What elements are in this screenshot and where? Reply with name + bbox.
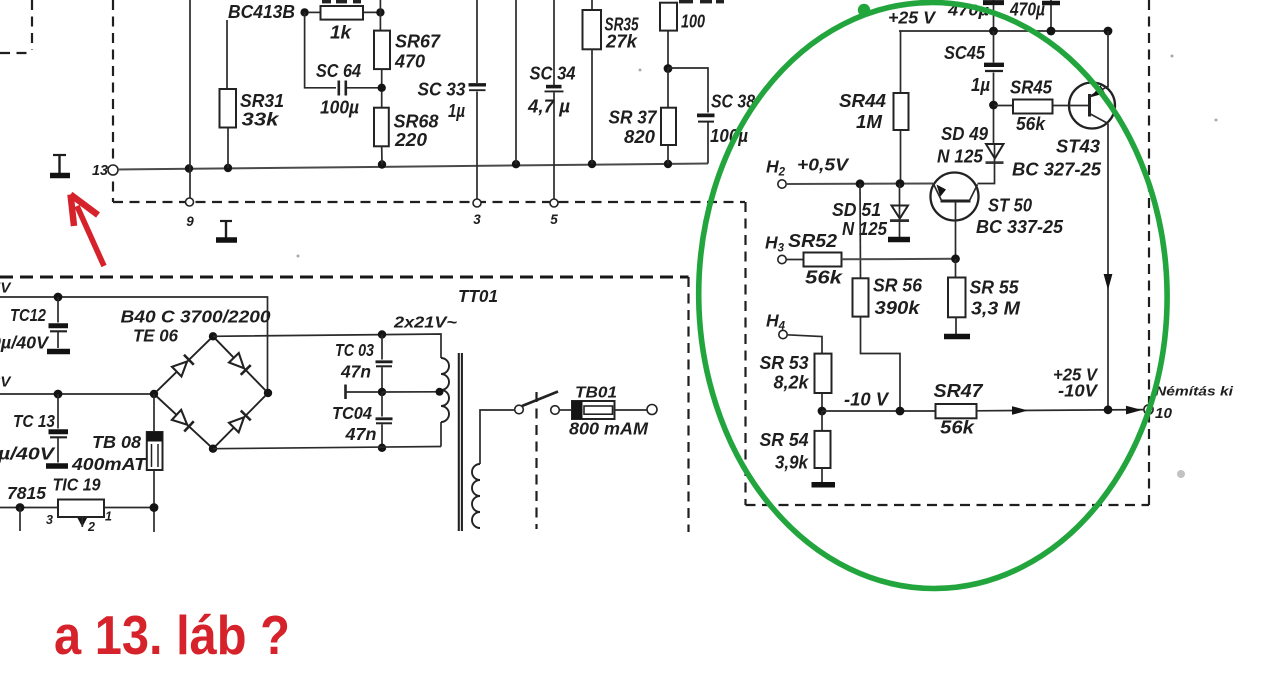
resistor SR44 1M [839,31,909,184]
svg-text:820: 820 [624,127,655,147]
svg-text:TC 13: TC 13 [13,411,55,431]
svg-text:SC 34: SC 34 [530,64,576,84]
svg-text:SC 38: SC 38 [711,92,755,112]
resistor SR52 56k [786,231,956,288]
wire from H2 node down to SR56 [859,184,862,278]
bridge diode upper-left [172,355,194,377]
arrow down on ST43 collector line [1104,274,1113,290]
svg-text:800 mAM: 800 mAM [569,419,648,439]
dust speck [297,55,1218,479]
svg-text:SD 49: SD 49 [941,124,988,144]
arrow right at output [1126,406,1142,415]
wire: +rail to bridge [0,297,268,393]
wire to SC38 branch [668,68,708,113]
svg-text:SR44: SR44 [839,91,886,111]
terminal pin 3 [473,199,481,227]
cut-off component marks top edge right [679,0,724,3]
svg-text:100µ: 100µ [320,98,360,118]
capacitor SC45 1u [944,31,1004,144]
svg-text:13: 13 [92,163,108,179]
arrow right on -10V wire [1012,406,1028,415]
svg-text:470: 470 [394,52,425,72]
regulator pin 2 arrow [78,517,88,527]
node -10V left [818,407,827,416]
svg-text:SR 55: SR 55 [970,278,1020,298]
node -10V x=900 [896,407,905,416]
node TC03/TC04 mid [378,388,386,396]
node H2 wire x=900 [896,179,905,188]
node on bus at x=382 [378,160,386,168]
svg-text:SR 56: SR 56 [873,276,923,296]
voltage regulator TIC19 7815 [0,475,154,518]
svg-text:SR67: SR67 [395,32,441,52]
svg-text:ST 50: ST 50 [988,196,1032,216]
svg-text:1: 1 [105,510,112,524]
svg-text:1M: 1M [856,112,883,132]
bridge diode lower-left [172,410,194,432]
svg-text:-10V: -10V [1058,381,1098,401]
dashed boundary of H-block (left, bottom, right) [746,0,1150,505]
svg-text:3: 3 [473,212,481,227]
svg-text:0µ/40V: 0µ/40V [0,333,49,353]
wire H2 to ST50 [786,183,933,186]
svg-text:TC04: TC04 [332,403,372,423]
stub with tick on center-tap wire [346,385,383,400]
node regulator left [16,503,25,531]
terminal pin 9 [186,198,195,229]
wire: center tap [382,391,438,393]
node rail x=1108 [1104,27,1113,36]
svg-text:+25 V: +25 V [888,8,936,28]
node TC03 top [378,330,386,338]
switch mechanical dashed link [535,392,537,529]
svg-text:+0,5V: +0,5V [797,155,849,175]
svg-text:220: 220 [394,130,427,150]
svg-text:10: 10 [1155,406,1172,422]
transistor ST50 BC337-25 (NPN) [931,173,1064,259]
svg-text:SR52: SR52 [788,231,837,251]
fuse TB08 400mAT [71,394,163,532]
wire: +25V rail [899,30,1108,32]
resistor SR37 [609,69,677,165]
svg-text:27k: 27k [605,32,638,52]
node regulator right / TB08 column [150,503,159,512]
wire: IC pin column x=190 [189,0,191,198]
svg-text:SR45: SR45 [1010,78,1053,98]
resistor SR54 3,9k [760,411,831,482]
switch contacts [515,392,572,415]
svg-text:56k: 56k [1016,114,1046,134]
svg-text:2x21V~: 2x21V~ [393,315,457,332]
node rail x=1051 [1047,27,1056,36]
svg-text:TT01: TT01 [458,286,498,306]
transformer secondary winding (left) [441,358,449,447]
node TC13 tap [54,390,63,399]
terminal pin 13 [92,163,118,179]
svg-text:TE 06: TE 06 [133,326,178,346]
svg-text:TIC 19: TIC 19 [53,475,101,495]
dashed boundary of upper IC block (left edge x=113 and bottom edge y=202) [113,0,745,202]
wire: bridge bottom corner to transformer [213,447,441,449]
node TC12 tap [54,293,63,302]
svg-text:SR 53: SR 53 [760,353,809,373]
resistor SR55 3,3M [948,259,1021,334]
diode SD49 N125 [937,124,1004,184]
node on bus at x=592 [588,160,596,168]
svg-text:56k: 56k [940,418,975,438]
svg-text:3: 3 [46,513,53,527]
svg-text:SC 33: SC 33 [418,80,466,100]
capacitor TC12 [0,297,68,353]
output terminal 10 Nemitas ki [1144,384,1234,423]
svg-text:8,2k: 8,2k [774,373,810,393]
node on bus at x=516 [512,160,520,168]
svg-text:TC 03: TC 03 [335,340,374,360]
svg-text:100: 100 [681,12,705,32]
svg-text:3,9k: 3,9k [775,453,809,473]
capacitor 470u first (cut off at top) [947,0,1004,31]
svg-text:7815: 7815 [7,483,46,503]
svg-text:1µ: 1µ [448,101,466,121]
regulator pin labels 3 2 1 [46,510,112,535]
fuse TB01 800mA [569,385,648,439]
capacitor SC34 4,7u [527,0,576,199]
green annotation dot [858,4,870,16]
svg-text:-10 V: -10 V [844,390,890,410]
capacitor TC03 47n [335,335,393,393]
node bottom wire [378,444,386,452]
svg-text:400mAT: 400mAT [71,454,148,474]
svg-text:390k: 390k [875,298,921,318]
dashed boundary of power-supply block (top edge and right edge) [0,277,689,532]
node rail x=993.5 [989,27,998,36]
terminal circle after TB01 [647,405,657,415]
node SC45/SR45 junction [989,101,998,110]
svg-text:N 125: N 125 [937,147,984,167]
node on bus at x=228 [224,164,232,172]
svg-text:5: 5 [550,212,558,227]
ground symbol below SR54 [812,482,836,488]
node on bus at x=189 [185,164,193,172]
node SR36/SR37/SC38 junction [664,64,673,73]
resistor SR47 56k [934,381,1145,438]
svg-text:Némítás ki: Némítás ki [1155,384,1233,399]
svg-text:47n: 47n [344,424,376,444]
node SC64/SR67/SR68 junction [378,84,386,92]
bridge diode upper-right [229,353,251,375]
wire: bridge top corner to transformer [213,334,441,358]
svg-text:B40 C 3700/2200: B40 C 3700/2200 [121,307,271,327]
capacitor TC04 47n [332,392,393,448]
node on bus at x=668 [664,160,672,168]
svg-text:TB 08: TB 08 [92,432,141,452]
svg-text:9: 9 [186,214,194,229]
svg-text:ST43: ST43 [1056,137,1100,157]
ground symbol near pin 13 [50,155,70,176]
svg-text:1µ: 1µ [971,75,991,95]
node transformer center tap [436,388,444,396]
svg-text:SR 54: SR 54 [760,430,809,450]
red annotation arrow [71,195,105,267]
svg-text:BC 327-25: BC 327-25 [1012,160,1102,180]
cut-off component marks top edge left [322,0,361,3]
input terminal H4 [766,311,787,339]
svg-text:56k: 56k [805,268,843,288]
capacitor 470u second (cut off at top) [1009,0,1060,31]
svg-text:47n: 47n [340,362,371,382]
resistor 1k [308,6,380,43]
resistor SR56 390k [853,276,923,412]
capacitor SC33 1u [418,0,487,199]
bridge rectifier TE06 labels [121,307,271,346]
svg-text:2: 2 [87,520,95,534]
svg-text:SR47: SR47 [934,381,984,401]
ground symbol below TC12 [47,349,70,355]
resistor SR31 [220,20,285,168]
net label +25V/-10V [1053,365,1098,401]
capacitor TC13 [0,394,68,464]
transformer primary winding (right) [472,410,515,528]
svg-text:3,3 M: 3,3 M [971,299,1021,319]
svg-text:SR31: SR31 [240,91,284,111]
capacitor SC38 100u [697,92,755,164]
svg-text:SC 64: SC 64 [316,61,361,81]
capacitor SC64 100u [316,61,382,118]
wire: ground bus of upper block [118,164,708,170]
svg-text:SD 51: SD 51 [832,200,881,220]
svg-text:1k: 1k [330,23,352,43]
wire: -rail to bridge left [0,393,154,395]
transistor ST43 BC327-25 (PNP) [1012,31,1115,410]
ground symbol below TC13 [46,463,68,469]
svg-text:0µ/40V: 0µ/40V [0,444,56,464]
svg-text:470µ: 470µ [1009,0,1045,20]
node ST50 emitter junction [951,254,960,263]
wire: plain IC column x=516 [515,0,517,164]
ground symbol below SR55 [944,334,970,340]
resistor SR68 [374,108,439,165]
svg-text:TC12: TC12 [10,305,46,325]
svg-text:4,7 µ: 4,7 µ [527,97,571,117]
svg-text:BC413B: BC413B [228,1,295,22]
wire: feedback loop down-left [305,12,336,87]
node A left of resistor 1k [300,8,308,16]
svg-text:a 13. láb ?: a 13. láb ? [54,605,290,666]
resistor SR67 [374,0,441,108]
ground symbol below SD51 [888,237,910,243]
transformer core [459,353,462,531]
svg-text:N 125: N 125 [842,219,888,239]
diode SD51 N125 [832,184,909,239]
resistor SR35 [583,0,640,164]
svg-text:SR68: SR68 [394,112,439,132]
wire -10V bus [822,410,936,412]
svg-text:BC 337-25: BC 337-25 [976,217,1064,237]
input terminal H2 [766,155,849,189]
terminal pin 5 [550,199,558,227]
resistor SR45 56k [994,78,1070,135]
ground symbol below pin 9 [216,221,237,240]
node H2 wire x=860 [856,179,865,188]
dashed box fragment top-left corner [0,0,32,53]
green annotation ellipse [695,0,1170,591]
node -10V x=1108 [1104,405,1113,414]
svg-text:33k: 33k [242,110,280,130]
input terminal H3 [765,233,786,264]
bridge diode lower-right [229,411,251,433]
resistor SR36 100 [660,3,705,69]
svg-text:SC45: SC45 [944,43,986,63]
bridge rectifier TE06 diamond [150,332,272,453]
resistor SR53 8,2k [760,335,832,411]
svg-text:SR 37: SR 37 [609,108,658,128]
svg-text:TB01: TB01 [575,385,617,402]
node B right of resistor 1k [376,8,384,16]
